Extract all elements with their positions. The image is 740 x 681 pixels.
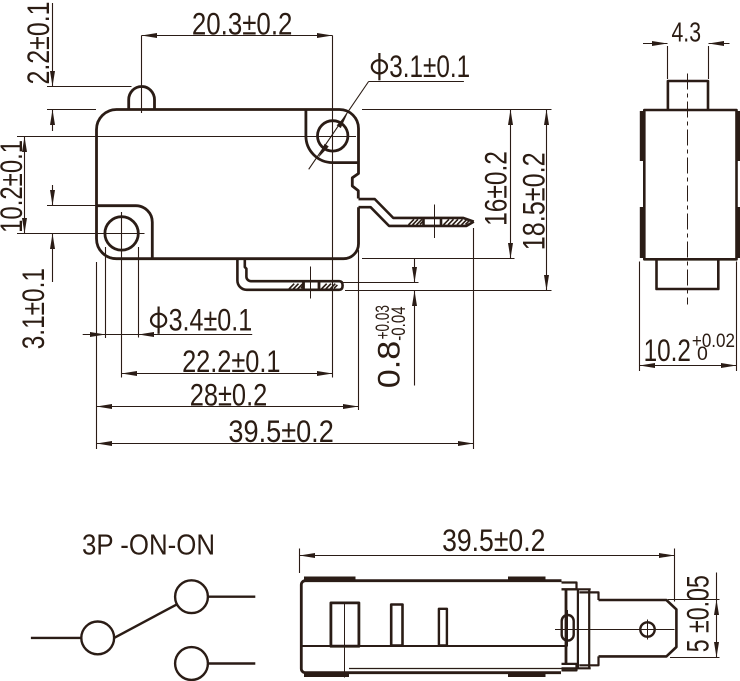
svg-text:3.1±0.1: 3.1±0.1 (389, 48, 470, 84)
bottom-left hole boss (98, 206, 153, 258)
bottom view dim 39.5 ext lines (300, 549, 675, 602)
dim 28 line (97, 406, 359, 408)
top throw circle (175, 580, 208, 613)
svg-text:16±0.2: 16±0.2 (478, 151, 514, 226)
dim 10.2 arrows (22, 137, 27, 234)
bottom view right edge (565, 589, 568, 664)
dim 28 arrows (97, 404, 359, 409)
svg-text:-0.04: -0.04 (388, 306, 410, 340)
svg-text:3.1±0.1: 3.1±0.1 (15, 268, 51, 349)
dim 0.8 line (414, 259, 416, 386)
dim 18.5 bottom ext (345, 290, 552, 292)
svg-text:3.4±0.1: 3.4±0.1 (169, 301, 253, 337)
svg-text:18.5±0.2: 18.5±0.2 (515, 152, 551, 250)
dim 20.3 arrows (142, 33, 333, 38)
oval centerline (567, 610, 569, 647)
bottom hole centerline vertical (121, 212, 123, 378)
big slot centerline (344, 602, 346, 678)
svg-text:28±0.2: 28±0.2 (190, 377, 268, 413)
dim 16 line (510, 110, 512, 259)
blade hole (640, 622, 654, 636)
dim phi3.4 leader line (83, 334, 253, 336)
right terminal center tick (434, 205, 436, 239)
bottom view third slot (439, 609, 447, 646)
dim 3.1 line (52, 185, 54, 282)
dim 10.2 ext lines (17, 137, 356, 234)
bottom view TR step block (562, 583, 577, 590)
dim 4.3 arrows (652, 41, 724, 46)
bottom terminal (237, 259, 342, 290)
bottom view big terminal slot (331, 603, 359, 646)
right common terminal (359, 199, 474, 226)
right terminal crimp dividers (424, 218, 442, 226)
dim 16 bottom ext (362, 258, 515, 260)
bottom view collar (562, 589, 591, 668)
common lead wire (31, 637, 81, 639)
bottom view dim 39.5 arrows (300, 553, 675, 558)
bottom terminal center tick (310, 267, 312, 299)
blade hole vertical tick (647, 620, 649, 640)
dim phi3.1 leader (309, 82, 464, 170)
dim 3.1 arrows (50, 190, 55, 249)
dim 16 arrows (508, 110, 513, 259)
label phi3.1 symbol (372, 53, 387, 80)
dim 39.5 arrows (97, 441, 474, 446)
svg-text:39.5±0.2: 39.5±0.2 (442, 522, 545, 558)
lever wire (114, 604, 177, 638)
dim 4.3 ext lines (668, 46, 709, 79)
dim phi3.4 arrows (90, 332, 154, 337)
dim 3.1 ext line (47, 205, 96, 207)
right terminal hatching (409, 219, 471, 225)
right dims shared top ext (362, 109, 552, 111)
dim 10.2 line (24, 137, 26, 234)
bottom throw lead wire (208, 662, 255, 664)
svg-text:22.2±0.1: 22.2±0.1 (182, 343, 280, 379)
svg-text:0: 0 (697, 343, 708, 365)
side view button (668, 81, 708, 109)
actuator button bump on top (129, 86, 155, 109)
dim 39.5 ext right (473, 228, 475, 449)
switch body outline (97, 110, 359, 259)
bottom view BR step block (562, 664, 577, 671)
side view body (644, 110, 736, 259)
dim 20.3 line (142, 35, 333, 37)
dim 22.2 line (122, 373, 333, 375)
dim 22.2 arrows (122, 371, 333, 376)
svg-text:10.2: 10.2 (644, 332, 691, 368)
bump centerline ext (141, 36, 143, 114)
dim 18.5 line (546, 110, 548, 291)
dim 39.5 line (97, 443, 474, 445)
bottom terminal crimp dividers (304, 282, 320, 291)
dim 0.8 arrows (412, 267, 417, 306)
svg-text:10.2±0.1: 10.2±0.1 (0, 140, 29, 233)
label phi3.4 symbol (151, 307, 166, 334)
bottom view oval detent (562, 615, 574, 641)
top throw lead wire (208, 596, 255, 598)
body left edge ext vertical (96, 262, 98, 449)
bottom view near-bottom line (349, 668, 566, 670)
dim 4.3 line (643, 43, 730, 45)
common pole circle (81, 622, 114, 655)
hole tangent ext lines (106, 247, 139, 338)
svg-text:4.3: 4.3 (672, 17, 702, 48)
side view latch bumps (640, 111, 740, 258)
bottom view plunger step (579, 592, 598, 665)
dim 2.2 arrows (50, 71, 55, 125)
bottom throw circle (175, 647, 208, 680)
bottom view dim 39.5 line (300, 555, 675, 557)
dim 5 line (716, 573, 718, 658)
dim 10.2 side arrows (640, 363, 737, 368)
svg-text:20.3±0.2: 20.3±0.2 (192, 5, 293, 41)
dim 0.8 ext top (343, 282, 419, 284)
dim 18.5 arrows (544, 110, 549, 291)
dim 5 ext lines (668, 600, 720, 658)
svg-text:39.5±0.2: 39.5±0.2 (228, 413, 333, 449)
svg-text:0.8: 0.8 (371, 341, 407, 389)
dim 28 ext right (358, 250, 360, 410)
svg-text:3P -ON-ON: 3P -ON-ON (82, 530, 215, 562)
bottom terminal hatching (289, 284, 337, 289)
svg-text:5 ±0.05: 5 ±0.05 (680, 575, 716, 652)
dim 5 arrows (714, 600, 719, 658)
bottom view horizontal centerline (555, 629, 675, 631)
side view bottom block (657, 259, 719, 289)
svg-text:2.2±0.1: 2.2±0.1 (20, 2, 56, 85)
bottom view inner wall line (301, 645, 566, 647)
side view centerline (687, 74, 689, 305)
dim 2.2 ext lines (47, 87, 132, 110)
bottom-left mounting hole (105, 217, 138, 250)
top-right hole boss (306, 110, 358, 163)
dim phi3.1 arrows (316, 112, 349, 159)
bottom view middle slot (391, 605, 402, 646)
bottom view body outline (301, 581, 561, 673)
bottom view blade (599, 600, 677, 656)
dim 2.2 line (52, 3, 54, 131)
bottom view top latch tabs (304, 577, 546, 678)
dim 10.2 side ext lines (640, 262, 737, 372)
top hole centerline ext vertical (332, 36, 334, 378)
top-right mounting hole (318, 121, 348, 151)
dim 10.2 side line (640, 365, 737, 367)
